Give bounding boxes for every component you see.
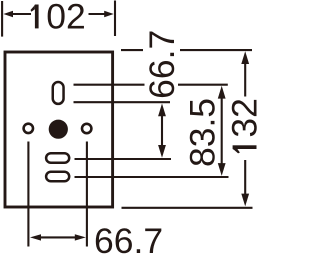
132 dim stem upper [244,63,246,97]
arrowhead 66.7R down [158,145,166,158]
filled center circle [49,120,68,139]
arrowhead 102 left [3,11,13,18]
extension line L3 slot lower [74,101,171,103]
arrowhead bottom-right [75,234,86,240]
arrowhead 102 right [104,11,114,18]
svg-text:02: 02 [46,0,86,36]
83.5 dim stem [221,97,223,165]
arrowhead 83.5 down [218,163,226,176]
extension line right of 102 [114,1,116,37]
extension line L2 slot upper [74,84,145,86]
arrowhead bottom-left [30,234,41,240]
dimension line 102 right stem [89,13,107,15]
extension line L6 bottom right [122,207,253,209]
arrowhead 66.7R up [158,104,166,117]
ring2 right small circle [82,124,91,133]
oval1 bottom slot upper [46,153,69,163]
extension line L1 top right [121,49,143,51]
oval2 bottom slot lower [46,172,69,182]
vertical extension below ring1 [27,142,29,247]
extension line L5 oval2 [75,176,229,178]
plate rectangle [5,52,113,207]
dimension line 102 left stem [13,13,31,15]
132 dim stem lower [244,160,246,195]
label 132 [225,98,265,153]
arrowhead 83.5 up [218,86,226,99]
extension line left of 102 [1,1,3,37]
svg-text:66.7: 66.7 [142,30,182,99]
vertical extension below ring2 [86,142,88,247]
label 102 [31,0,86,36]
arrowhead 132 up [241,51,249,64]
bottom dimension stem [40,236,76,238]
ring1 left small circle [24,124,33,133]
svg-text:32: 32 [225,98,265,138]
arrowhead 132 down [241,194,249,207]
66.7 right dim stem [161,115,163,146]
svg-text:83.5: 83.5 [182,98,222,167]
svg-text:66.7: 66.7 [94,221,163,261]
extension line L4 oval1 [75,158,172,160]
slot vertical oval [53,82,64,104]
